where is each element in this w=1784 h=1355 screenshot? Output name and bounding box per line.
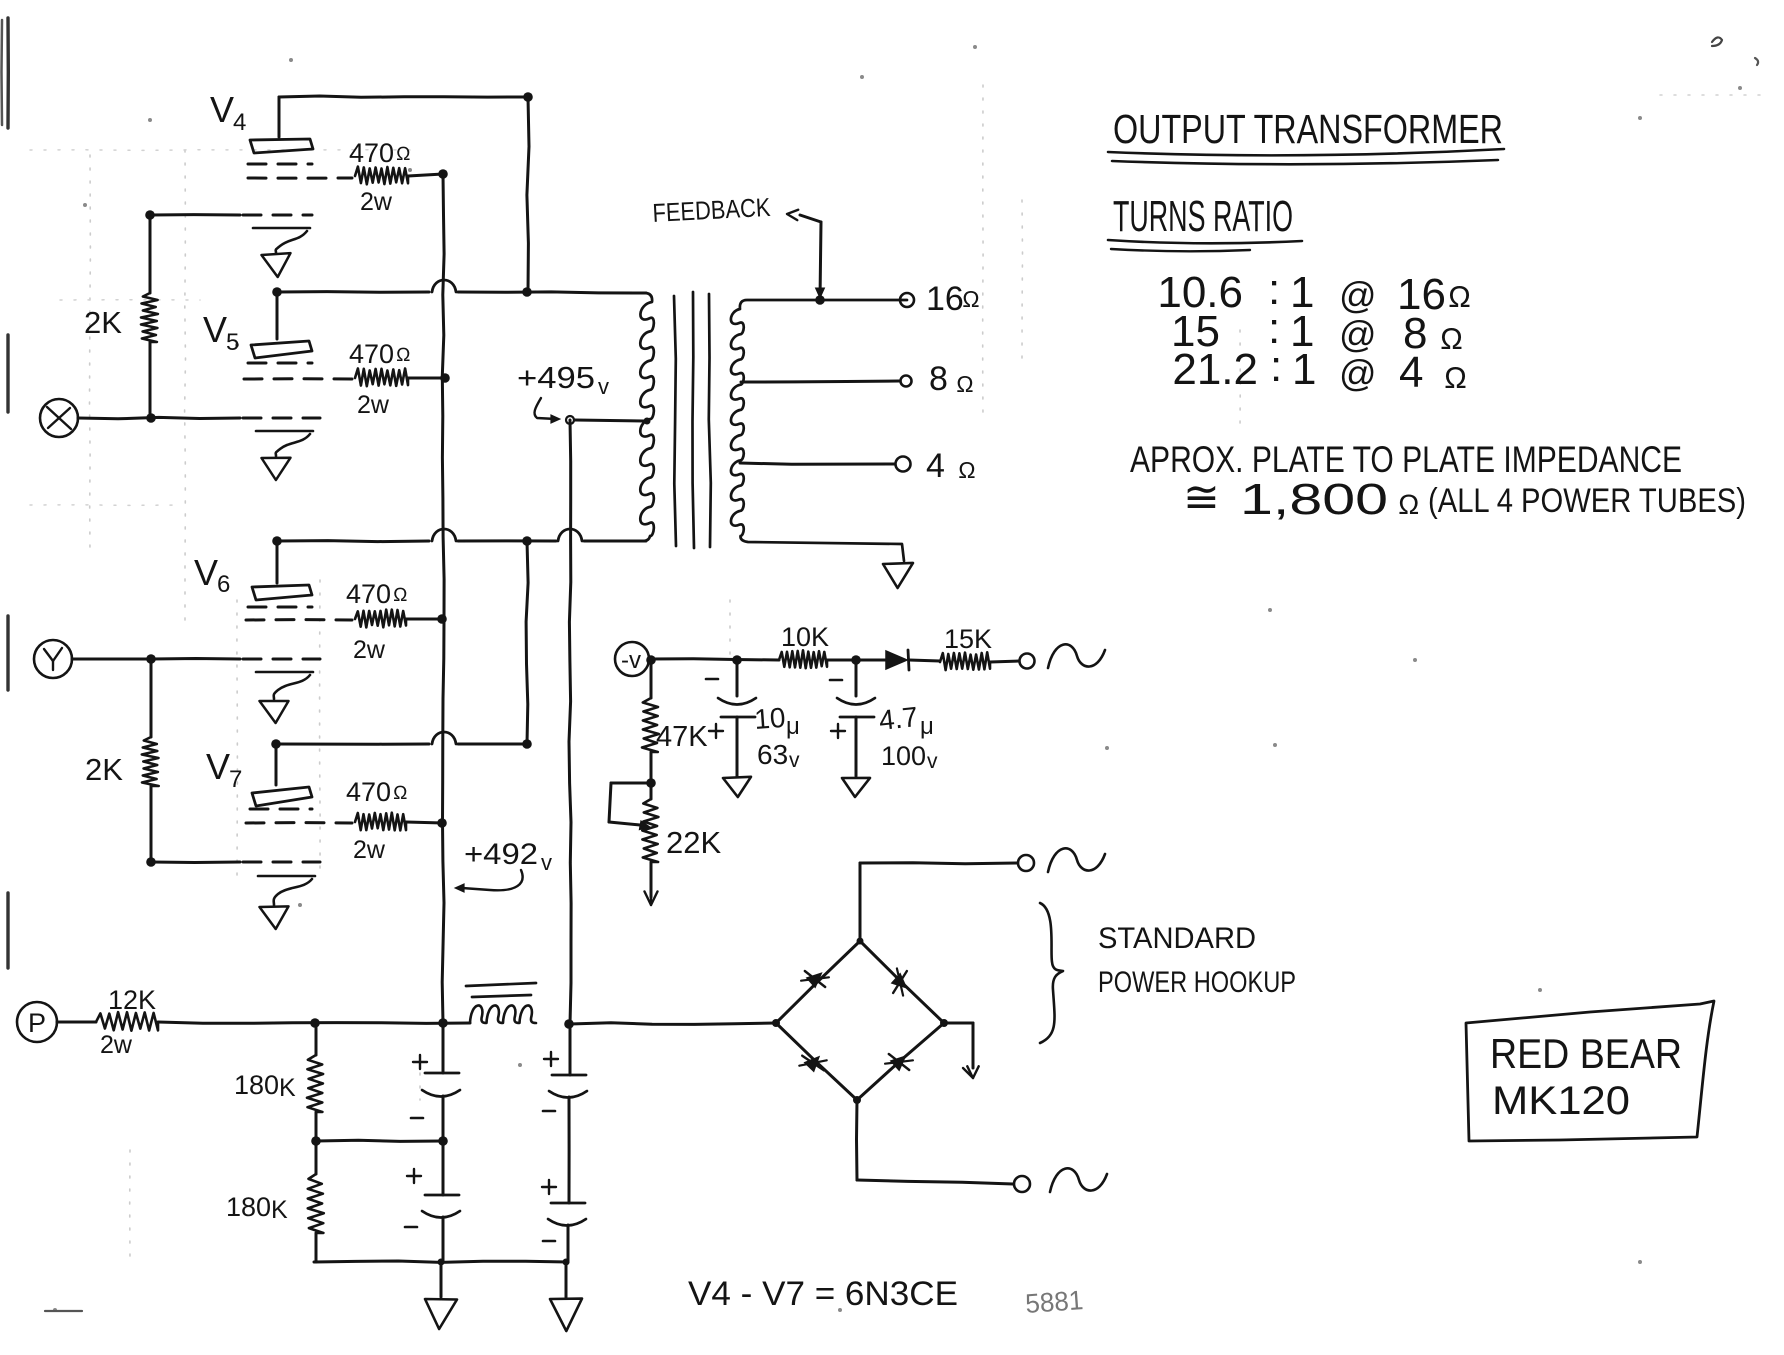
terminal AC2 xyxy=(1014,1176,1030,1192)
terminal 4 ohm tap xyxy=(896,457,911,472)
transformer T1 primary winding xyxy=(640,293,654,541)
ground V7 cathode xyxy=(258,876,315,929)
svg-text:4: 4 xyxy=(233,109,246,136)
node bridge top xyxy=(857,938,864,945)
resistor 10K xyxy=(779,650,827,668)
tube V5 label xyxy=(203,309,239,356)
svg-text:12K: 12K xyxy=(108,985,156,1015)
diode D1 xyxy=(886,650,909,670)
arrowhead feedback down xyxy=(816,288,825,298)
tube V4 grid g3 dashes xyxy=(248,163,312,166)
label 47K xyxy=(656,721,708,753)
node feedback tap xyxy=(815,295,825,305)
symbol AC sine 2 xyxy=(1050,1168,1107,1192)
wire ground bus xyxy=(314,1261,568,1262)
ground 4.7uF xyxy=(842,778,870,797)
resistor 470ohm V6 screen xyxy=(355,610,406,628)
ground bridge arrow xyxy=(963,1066,979,1078)
tube V4 grid g1 row xyxy=(150,213,312,216)
tube V7 grid g3 dashes xyxy=(250,808,312,811)
wire 470ohm V6 to rail xyxy=(406,618,443,621)
ground main right xyxy=(550,1262,582,1331)
label ratio 10.6 to 1 xyxy=(1157,265,1471,319)
wire diode to 15K xyxy=(909,660,940,661)
label 16 ohm xyxy=(926,280,980,318)
node V5 plate junction xyxy=(272,287,282,297)
wire 12K to choke xyxy=(158,1022,470,1023)
node X junction xyxy=(146,413,156,423)
node 22K top junction xyxy=(646,778,656,788)
underline turns ratio xyxy=(1108,240,1302,251)
node 47K top junction xyxy=(646,655,656,665)
bridge rectifier arms xyxy=(776,941,944,1100)
label 2w V4 xyxy=(360,188,393,216)
label 470ohm V5 xyxy=(349,339,411,369)
node ground bus left xyxy=(438,1259,445,1266)
underline title xyxy=(1108,149,1504,164)
arrow +495v pointer xyxy=(534,398,560,423)
transformer T1 core xyxy=(674,292,711,548)
wire choke to bridge xyxy=(570,1023,776,1025)
tube V5 plate xyxy=(251,341,312,358)
node choke out junction xyxy=(564,1019,574,1029)
node V4V5 rail junction xyxy=(522,287,532,297)
resistor 2K lower xyxy=(142,737,159,786)
capacitor 4.7uF plates xyxy=(830,660,875,776)
node rail mid junction xyxy=(438,1136,448,1146)
label 180K lower xyxy=(226,1192,288,1224)
tube V4 plate lead xyxy=(278,97,281,137)
svg-text:6: 6 xyxy=(217,571,230,598)
node bridge right xyxy=(940,1019,948,1027)
node 180K mid junction xyxy=(311,1136,321,1146)
svg-text:15K: 15K xyxy=(944,624,992,654)
diode bridge top-left xyxy=(801,971,829,988)
wire center tap rail vertical xyxy=(569,420,571,1024)
svg-text:470: 470 xyxy=(349,138,394,168)
label 12K xyxy=(108,985,156,1015)
wire V4 plate to top rail xyxy=(279,96,528,97)
tube V5 plate lead xyxy=(276,292,279,339)
tube V4 label xyxy=(210,89,246,136)
label 63v xyxy=(757,739,800,772)
label MK120 xyxy=(1492,1079,1630,1123)
label 2w V7 xyxy=(353,836,386,864)
label 22K xyxy=(666,825,721,860)
svg-text::: : xyxy=(1270,342,1282,391)
svg-text:2K: 2K xyxy=(85,752,123,787)
node 10uF junction xyxy=(732,655,742,665)
arrowhead pot wiper xyxy=(639,821,650,830)
tube V4 grid g2 dashes xyxy=(248,177,352,180)
node V7 rail corner xyxy=(522,739,532,749)
svg-text:MK120: MK120 xyxy=(1492,1079,1630,1123)
svg-text:2K: 2K xyxy=(84,305,122,340)
label 4.7uF xyxy=(877,701,933,740)
svg-text:470: 470 xyxy=(346,579,391,609)
label 100v xyxy=(881,741,938,773)
tube V6 plate xyxy=(252,585,312,600)
node 470ohm V6 junction xyxy=(437,614,447,624)
terminal AC1 xyxy=(1018,855,1034,871)
label ratio 21.2 to 1 xyxy=(1172,342,1467,397)
svg-text:OUTPUT TRANSFORMER: OUTPUT TRANSFORMER xyxy=(1113,106,1503,152)
svg-text:4.7: 4.7 xyxy=(877,701,919,736)
node T1 primary center tap xyxy=(644,418,651,425)
tube V6 grid g2 dashes xyxy=(246,618,352,621)
wire feedback xyxy=(800,215,821,300)
resistor 12K xyxy=(96,1012,158,1031)
svg-text:+492: +492 xyxy=(464,838,538,871)
label TURNS RATIO xyxy=(1113,192,1293,241)
label OUTPUT TRANSFORMER title xyxy=(1113,106,1503,152)
label 2w V6 xyxy=(353,636,386,664)
node V6 plate junction xyxy=(272,536,282,546)
svg-text:V: V xyxy=(206,746,230,787)
wire 2K upper bottom xyxy=(149,342,152,418)
label V4-V7 = 6N3CE xyxy=(688,1275,958,1313)
wire X to grid row xyxy=(78,417,240,418)
label 2K upper xyxy=(84,305,122,340)
svg-text:470: 470 xyxy=(346,777,391,807)
label 2w V5 xyxy=(357,391,390,419)
tube V7 grid g2 dashes xyxy=(246,821,352,824)
label 470ohm V6 xyxy=(346,579,408,609)
svg-text:8: 8 xyxy=(929,360,948,398)
label POWER HOOKUP xyxy=(1098,966,1296,999)
label 4 ohm xyxy=(926,447,976,485)
tube V6 grid g3 dashes xyxy=(248,606,312,609)
node V4 g1 junction xyxy=(145,210,155,220)
node screen rail bottom junction xyxy=(438,1018,448,1028)
node bridge left xyxy=(772,1019,780,1027)
svg-text:63: 63 xyxy=(757,739,788,770)
svg-text:180: 180 xyxy=(234,1070,279,1100)
capacitor C4 plates xyxy=(542,1180,586,1262)
svg-text:≅: ≅ xyxy=(1183,473,1220,522)
wire screen rail vertical xyxy=(442,174,444,1023)
svg-text:μ: μ xyxy=(920,713,934,740)
capacitor 10uF plates xyxy=(706,660,756,776)
label RED BEAR xyxy=(1490,1030,1682,1077)
brace standard power hookup xyxy=(1040,903,1063,1043)
wire 180K mid xyxy=(316,1112,443,1141)
arrowhead feedback left xyxy=(787,210,798,220)
arrow +492v pointer xyxy=(455,870,523,892)
capacitor C1 plates xyxy=(411,1023,460,1141)
svg-text:Ω: Ω xyxy=(956,371,974,397)
wire 2K upper top xyxy=(149,215,152,293)
ground V6 cathode xyxy=(256,672,313,723)
svg-text:K: K xyxy=(279,1074,296,1102)
label 470ohm V4 xyxy=(349,138,411,168)
tube V5 grid g1 dashes xyxy=(243,417,320,420)
svg-text:V: V xyxy=(194,552,218,593)
node ground bus right xyxy=(563,1259,570,1266)
svg-text:16: 16 xyxy=(926,280,964,318)
svg-text:Ω: Ω xyxy=(1440,323,1463,356)
svg-text:TURNS RATIO: TURNS RATIO xyxy=(1113,192,1293,241)
svg-text:Ω: Ω xyxy=(962,286,980,312)
svg-text:10K: 10K xyxy=(781,622,829,652)
svg-text:V4 - V7 = 6N3CE: V4 - V7 = 6N3CE xyxy=(688,1275,958,1313)
label 5881 faint xyxy=(1024,1285,1084,1319)
tube V5 grid g3 dashes xyxy=(248,362,312,365)
resistor 15K xyxy=(940,652,990,670)
node 180K top junction xyxy=(310,1018,320,1028)
tube V6 grid g1 row xyxy=(151,657,320,661)
symbol AC sine 1 xyxy=(1048,848,1105,872)
svg-text:Ω: Ω xyxy=(396,345,411,366)
svg-text:-v: -v xyxy=(621,647,641,674)
svg-text:5: 5 xyxy=(226,329,239,356)
resistor 470ohm V4 screen xyxy=(355,167,408,185)
wire V7 plate rail xyxy=(276,732,527,744)
node V7 g1 junction xyxy=(146,857,156,867)
svg-text:@: @ xyxy=(1339,353,1377,394)
svg-text:@: @ xyxy=(1339,275,1377,316)
wire pot feedback loop xyxy=(609,783,651,825)
svg-text:v: v xyxy=(598,374,609,399)
svg-text:v: v xyxy=(541,850,552,875)
svg-text:V: V xyxy=(210,89,234,130)
resistor 47K xyxy=(642,698,659,752)
svg-text:STANDARD: STANDARD xyxy=(1098,922,1256,955)
label 180K upper xyxy=(234,1070,296,1102)
wire 47K to pot xyxy=(650,752,653,783)
svg-text:470: 470 xyxy=(349,339,394,369)
node V7 plate junction xyxy=(271,739,281,749)
svg-text:21.2: 21.2 xyxy=(1172,345,1258,394)
label 2w 12K xyxy=(100,1031,133,1059)
svg-text:1: 1 xyxy=(1292,345,1316,394)
transformer T1 primary center tap wire xyxy=(566,416,645,424)
svg-text:2w: 2w xyxy=(100,1031,133,1059)
svg-text:Ω: Ω xyxy=(1398,489,1420,520)
svg-text:P: P xyxy=(28,1008,46,1038)
ground 10uF xyxy=(723,777,751,797)
ground 22K arrow xyxy=(645,892,658,906)
wire bridge right to ground xyxy=(944,1023,973,1068)
svg-text:10: 10 xyxy=(753,702,786,735)
label aprox plate impedance xyxy=(1130,439,1682,480)
svg-text:Ω: Ω xyxy=(958,457,976,483)
wire 22K to ground xyxy=(650,862,653,897)
label +492v xyxy=(464,838,552,875)
wire 2K lower bottom xyxy=(150,786,153,862)
tube V5 grid g2 dashes xyxy=(244,377,352,380)
wire bridge top to AC1 xyxy=(860,863,1017,941)
wire 8 ohm tap xyxy=(741,381,899,382)
svg-text:v: v xyxy=(927,750,938,773)
wire 470ohm V4 to rail xyxy=(408,174,443,176)
terminal bias output xyxy=(1020,654,1035,669)
svg-text:@: @ xyxy=(1339,314,1377,355)
terminal 16 ohm tap xyxy=(900,293,914,307)
wire V7 rail vertical xyxy=(526,541,528,744)
label 10K xyxy=(781,622,829,652)
capacitor C3 plates xyxy=(543,1024,587,1203)
svg-text:v: v xyxy=(789,749,800,772)
diode bridge top-right xyxy=(892,968,907,995)
capacitor C2 plates xyxy=(405,1141,460,1262)
svg-text:1,800: 1,800 xyxy=(1240,475,1388,524)
node Y junction xyxy=(146,654,156,664)
svg-text:+495: +495 xyxy=(517,360,595,395)
wire 180K lower leads xyxy=(315,1141,318,1262)
svg-text:2w: 2w xyxy=(353,836,386,864)
resistor 470ohm V5 screen xyxy=(355,369,408,387)
node 470ohm V7 junction xyxy=(437,818,447,828)
box RED BEAR xyxy=(1466,1001,1714,1141)
tube V7 plate lead xyxy=(275,744,278,785)
ground V5 cathode xyxy=(256,431,313,480)
wire vertical from V4 top rail down to V5 plate wire xyxy=(527,97,529,292)
svg-text:2w: 2w xyxy=(353,636,386,664)
resistor 2K upper xyxy=(141,293,158,342)
tube V6 label xyxy=(194,552,230,598)
transformer T1 secondary winding xyxy=(731,300,907,561)
svg-text:Ω: Ω xyxy=(1448,281,1471,314)
svg-text:μ: μ xyxy=(786,713,800,740)
svg-text:180: 180 xyxy=(226,1192,271,1222)
svg-text:4: 4 xyxy=(1399,348,1423,397)
wire Y to junction xyxy=(72,658,151,661)
wire 4 ohm tap xyxy=(740,463,895,464)
tube V4 plate xyxy=(250,139,313,153)
wire -V to 47K xyxy=(650,660,653,698)
terminal P input xyxy=(17,1002,57,1042)
wire bridge bottom to AC2 xyxy=(857,1100,1014,1184)
ground V4 cathode xyxy=(253,228,310,277)
wire 10K to diode xyxy=(827,659,886,662)
wire V6 plate rail to transformer xyxy=(277,529,646,542)
svg-text:100: 100 xyxy=(881,741,926,771)
resistor 470ohm V7 screen xyxy=(355,813,406,831)
tube V7 label xyxy=(206,746,242,793)
label FEEDBACK xyxy=(652,192,772,228)
svg-text:Ω: Ω xyxy=(393,585,408,606)
wire 470ohm V5 to rail xyxy=(408,377,446,380)
svg-text:Ω: Ω xyxy=(393,783,408,804)
label 1800 ohm all 4 power tubes xyxy=(1183,473,1746,524)
label 2K lower xyxy=(85,752,123,787)
svg-text:22K: 22K xyxy=(666,825,721,860)
svg-text:(ALL 4 POWER TUBES): (ALL 4 POWER TUBES) xyxy=(1428,482,1746,520)
node 470ohm V4 junction xyxy=(438,169,448,179)
svg-text:Ω: Ω xyxy=(1444,362,1467,395)
terminal X input xyxy=(40,399,78,437)
svg-text:K: K xyxy=(271,1196,288,1224)
potentiometer 22K xyxy=(642,783,658,862)
resistor 180K lower xyxy=(308,1174,324,1233)
tube V6 plate lead xyxy=(276,541,279,583)
label +495v xyxy=(517,360,609,399)
diode bridge bottom-right xyxy=(885,1054,913,1071)
label ratio 15 to 1 xyxy=(1171,304,1463,358)
wire -V to 10K xyxy=(649,659,779,660)
svg-text:2w: 2w xyxy=(360,188,393,216)
wire V5 plate rail to transformer xyxy=(277,280,646,293)
svg-text:Ω: Ω xyxy=(396,144,411,165)
terminal -V node xyxy=(615,642,649,676)
ground secondary xyxy=(883,563,913,588)
label 8 ohm xyxy=(929,360,974,398)
wire P to 12K xyxy=(57,1021,96,1024)
svg-text:7: 7 xyxy=(229,766,242,793)
tube V7 grid g1 row xyxy=(151,861,320,865)
inductor choke L1 xyxy=(466,983,536,1023)
svg-text:47K: 47K xyxy=(656,721,708,753)
node bridge bottom xyxy=(853,1096,861,1104)
node V6V7 rail junction xyxy=(522,536,532,546)
label 10uF xyxy=(753,702,800,740)
svg-text:POWER HOOKUP: POWER HOOKUP xyxy=(1098,966,1296,999)
resistor 180K upper xyxy=(307,1023,323,1112)
wire 2K lower top xyxy=(150,659,153,737)
label 15K xyxy=(944,624,992,654)
wire 470ohm V7 to rail xyxy=(406,822,443,823)
symbol AC sine bias xyxy=(1048,644,1105,668)
label 470ohm V7 xyxy=(346,777,408,807)
svg-text:5881: 5881 xyxy=(1024,1285,1084,1319)
ground main left xyxy=(425,1262,457,1329)
terminal 8 ohm tap xyxy=(901,376,912,387)
node 4.7uF junction xyxy=(851,655,861,665)
svg-text:FEEDBACK: FEEDBACK xyxy=(652,192,772,228)
terminal Y input xyxy=(34,640,72,678)
svg-text:4: 4 xyxy=(926,447,945,485)
node junction top rail xyxy=(523,92,533,102)
svg-text:V: V xyxy=(203,309,227,350)
wire 15K to output xyxy=(990,661,1019,662)
svg-text:RED BEAR: RED BEAR xyxy=(1490,1030,1682,1077)
svg-text:2w: 2w xyxy=(357,391,390,419)
node 470ohm V5 junction xyxy=(440,373,450,383)
diode bridge bottom-left xyxy=(799,1056,826,1072)
tube V7 plate xyxy=(252,787,312,806)
label STANDARD xyxy=(1098,922,1256,955)
